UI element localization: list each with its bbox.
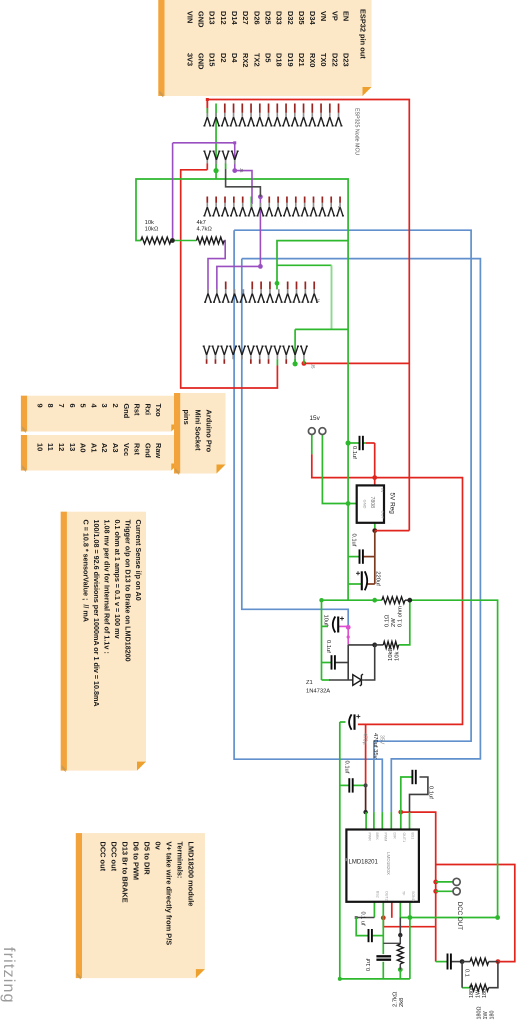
- svg-text:4k7: 4k7: [197, 220, 206, 226]
- svg-text:EN: EN: [342, 11, 351, 21]
- svg-text:10: 10: [35, 443, 44, 451]
- svg-text:Rxi: Rxi: [143, 404, 152, 416]
- svg-text:D2: D2: [219, 53, 228, 62]
- svg-text:RX0: RX0: [308, 53, 317, 67]
- svg-text:35V: 35V: [379, 735, 385, 745]
- svg-text:0.1 ohm: 0.1 ohm: [398, 606, 404, 627]
- svg-text:A2: A2: [100, 443, 109, 452]
- svg-text:180: 180: [482, 989, 488, 998]
- svg-text:OUT: OUT: [381, 511, 386, 520]
- svg-text:BRK: BRK: [375, 833, 379, 841]
- svg-text:Z1: Z1: [306, 680, 313, 686]
- svg-text:RX2: RX2: [241, 53, 250, 67]
- svg-text:0.1 ohm at 1 amps = 0.1 v = 10: 0.1 ohm at 1 amps = 0.1 v = 100 mv: [113, 520, 122, 639]
- svg-text:D18: D18: [275, 53, 284, 67]
- svg-text:10kΩ: 10kΩ: [388, 647, 394, 661]
- svg-text:D22: D22: [330, 53, 339, 67]
- svg-text:5V Reg: 5V Reg: [389, 493, 396, 515]
- svg-text:10k: 10k: [145, 220, 154, 226]
- svg-text:GND: GND: [363, 500, 368, 509]
- svg-text:Vcc: Vcc: [122, 443, 131, 456]
- svg-text:VN: VN: [319, 11, 328, 21]
- svg-text:SGND: SGND: [411, 891, 415, 902]
- svg-text:0.1uf: 0.1uf: [325, 640, 331, 653]
- svg-text:470µ: 470µ: [362, 733, 368, 745]
- svg-text:J5: J5: [311, 364, 316, 369]
- svg-text:Arduino Pro: Arduino Pro: [205, 410, 214, 453]
- svg-text:3V3: 3V3: [185, 53, 194, 66]
- svg-text:8: 8: [46, 404, 55, 408]
- svg-text:13: 13: [68, 443, 77, 451]
- svg-text:Txo: Txo: [154, 404, 163, 418]
- svg-text:Mini Socket: Mini Socket: [193, 410, 202, 452]
- svg-text:0.1uf: 0.1uf: [351, 534, 357, 547]
- svg-text:1W: 1W: [483, 1011, 489, 1020]
- svg-text:15v: 15v: [310, 415, 321, 422]
- svg-text:6: 6: [68, 404, 77, 408]
- svg-text:D5 to DIR: D5 to DIR: [142, 842, 151, 876]
- svg-text:GND: GND: [197, 53, 206, 70]
- svg-text:D25: D25: [263, 11, 272, 25]
- svg-text:1W: 1W: [476, 989, 482, 998]
- svg-text:LMD18201: LMD18201: [349, 860, 379, 866]
- svg-text:D34: D34: [308, 11, 317, 25]
- svg-text:10k: 10k: [395, 652, 401, 661]
- svg-text:0.1 uf: 0.1 uf: [360, 912, 366, 926]
- svg-text:J7: J7: [337, 206, 342, 211]
- svg-text:2W: 2W: [391, 618, 397, 627]
- svg-text:2.7kΩ: 2.7kΩ: [393, 991, 399, 1007]
- svg-text:180: 180: [490, 1011, 496, 1020]
- svg-text:4.7kΩ: 4.7kΩ: [197, 226, 213, 232]
- svg-text:D12: D12: [219, 11, 228, 25]
- svg-text:BS1: BS1: [411, 833, 415, 840]
- svg-text:D4: D4: [230, 53, 239, 63]
- svg-text:BS2: BS2: [376, 891, 380, 898]
- svg-text:D35: D35: [297, 11, 306, 25]
- svg-text:D13 Br to BRAKE: D13 Br to BRAKE: [120, 842, 129, 903]
- svg-text:D33: D33: [275, 11, 284, 25]
- svg-text:10uf: 10uf: [323, 615, 329, 627]
- svg-text:VIN: VIN: [185, 11, 194, 23]
- svg-text:180Ω: 180Ω: [477, 1006, 483, 1019]
- svg-text:0.1uf: 0.1uf: [344, 761, 350, 774]
- svg-text:D23: D23: [342, 53, 351, 67]
- svg-text:IN: IN: [380, 488, 385, 492]
- svg-text:A1: A1: [89, 443, 98, 452]
- svg-text:Rst: Rst: [133, 443, 142, 455]
- svg-text:GND: GND: [197, 11, 206, 28]
- svg-text:0.1: 0.1: [464, 969, 470, 977]
- svg-text:Raw: Raw: [154, 443, 163, 458]
- svg-text:fritzing: fritzing: [0, 947, 17, 1004]
- svg-text:D5: D5: [263, 53, 272, 62]
- svg-text:DIR: DIR: [393, 833, 397, 840]
- svg-text:C = 10.8 * sensorValue ; // m: C = 10.8 * sensorValue ; // mA: [82, 520, 91, 622]
- svg-text:TX0: TX0: [319, 53, 328, 67]
- svg-text:pins: pins: [182, 410, 191, 425]
- svg-text:Rst: Rst: [133, 404, 142, 416]
- svg-text:TX2: TX2: [252, 53, 261, 67]
- svg-text:10kΩ: 10kΩ: [145, 226, 159, 232]
- svg-text:0v: 0v: [153, 842, 162, 851]
- svg-text:J6: J6: [239, 168, 244, 173]
- svg-text:5: 5: [79, 404, 88, 408]
- svg-text:D21: D21: [297, 53, 306, 67]
- svg-text:D15: D15: [208, 53, 217, 67]
- svg-text:J4: J4: [316, 298, 321, 303]
- svg-text:A0: A0: [79, 443, 88, 452]
- svg-text:D32: D32: [286, 11, 295, 25]
- svg-text:A3: A3: [111, 443, 120, 452]
- svg-text:7808: 7808: [369, 497, 375, 509]
- svg-text:12: 12: [57, 443, 66, 451]
- svg-text:Gnd: Gnd: [122, 404, 131, 419]
- svg-text:V+ take wire directly from P/S: V+ take wire directly from P/S: [164, 842, 173, 946]
- svg-text:OUT2: OUT2: [385, 891, 389, 901]
- svg-text:0.1uf: 0.1uf: [366, 958, 372, 971]
- svg-text:1N4732A: 1N4732A: [306, 689, 330, 695]
- svg-text:D19: D19: [286, 53, 295, 67]
- svg-text:PWR: PWR: [367, 833, 371, 842]
- svg-text:0.1Ω: 0.1Ω: [385, 614, 391, 627]
- svg-text:ESP32 pin out: ESP32 pin out: [359, 9, 368, 59]
- svg-text:Current Sense i/p on A0: Current Sense i/p on A0: [134, 520, 143, 601]
- svg-text:Gnd: Gnd: [143, 443, 152, 458]
- svg-text:2k8: 2k8: [399, 998, 405, 1007]
- svg-text:3: 3: [100, 404, 109, 408]
- svg-text:Terminals:: Terminals:: [175, 842, 184, 879]
- svg-text:2: 2: [111, 404, 120, 408]
- svg-text:7: 7: [57, 404, 66, 408]
- svg-text:100/1.08 = 92.6 divisions per: 100/1.08 = 92.6 divisions per 1000mA or …: [92, 520, 101, 707]
- svg-text:ESP325 Node MCU: ESP325 Node MCU: [354, 108, 360, 155]
- svg-text:DCC out: DCC out: [109, 842, 118, 872]
- svg-text:DCC out: DCC out: [98, 842, 107, 872]
- svg-text:PWM: PWM: [384, 833, 388, 842]
- svg-text:220uf: 220uf: [375, 571, 381, 586]
- svg-text:D14: D14: [230, 11, 239, 25]
- svg-text:D6 to PWM: D6 to PWM: [131, 842, 140, 881]
- svg-text:D26: D26: [252, 11, 261, 25]
- svg-text:11: 11: [46, 443, 55, 451]
- svg-text:VP: VP: [330, 11, 339, 21]
- svg-text:DCC OUT: DCC OUT: [456, 902, 463, 930]
- svg-text:180Ω: 180Ω: [469, 985, 475, 998]
- svg-text:D27: D27: [241, 11, 250, 25]
- svg-text:9: 9: [35, 404, 44, 408]
- svg-text:1.08 mv per div for Internal R: 1.08 mv per div for Internal Ref of 1.1v…: [103, 520, 112, 654]
- svg-text:D13: D13: [208, 11, 217, 25]
- svg-text:470uf 35v: 470uf 35v: [372, 733, 378, 759]
- svg-text:0.1uf: 0.1uf: [428, 786, 434, 799]
- svg-text:0.1uf: 0.1uf: [351, 446, 357, 459]
- svg-text:OUT1: OUT1: [402, 833, 406, 843]
- svg-text:Trigger o/p on D13 to Brake on: Trigger o/p on D13 to Brake on LMD18200: [124, 520, 133, 662]
- svg-text:LMD1820X: LMD1820X: [386, 852, 391, 875]
- svg-text:LMD18200 module: LMD18200 module: [186, 842, 195, 907]
